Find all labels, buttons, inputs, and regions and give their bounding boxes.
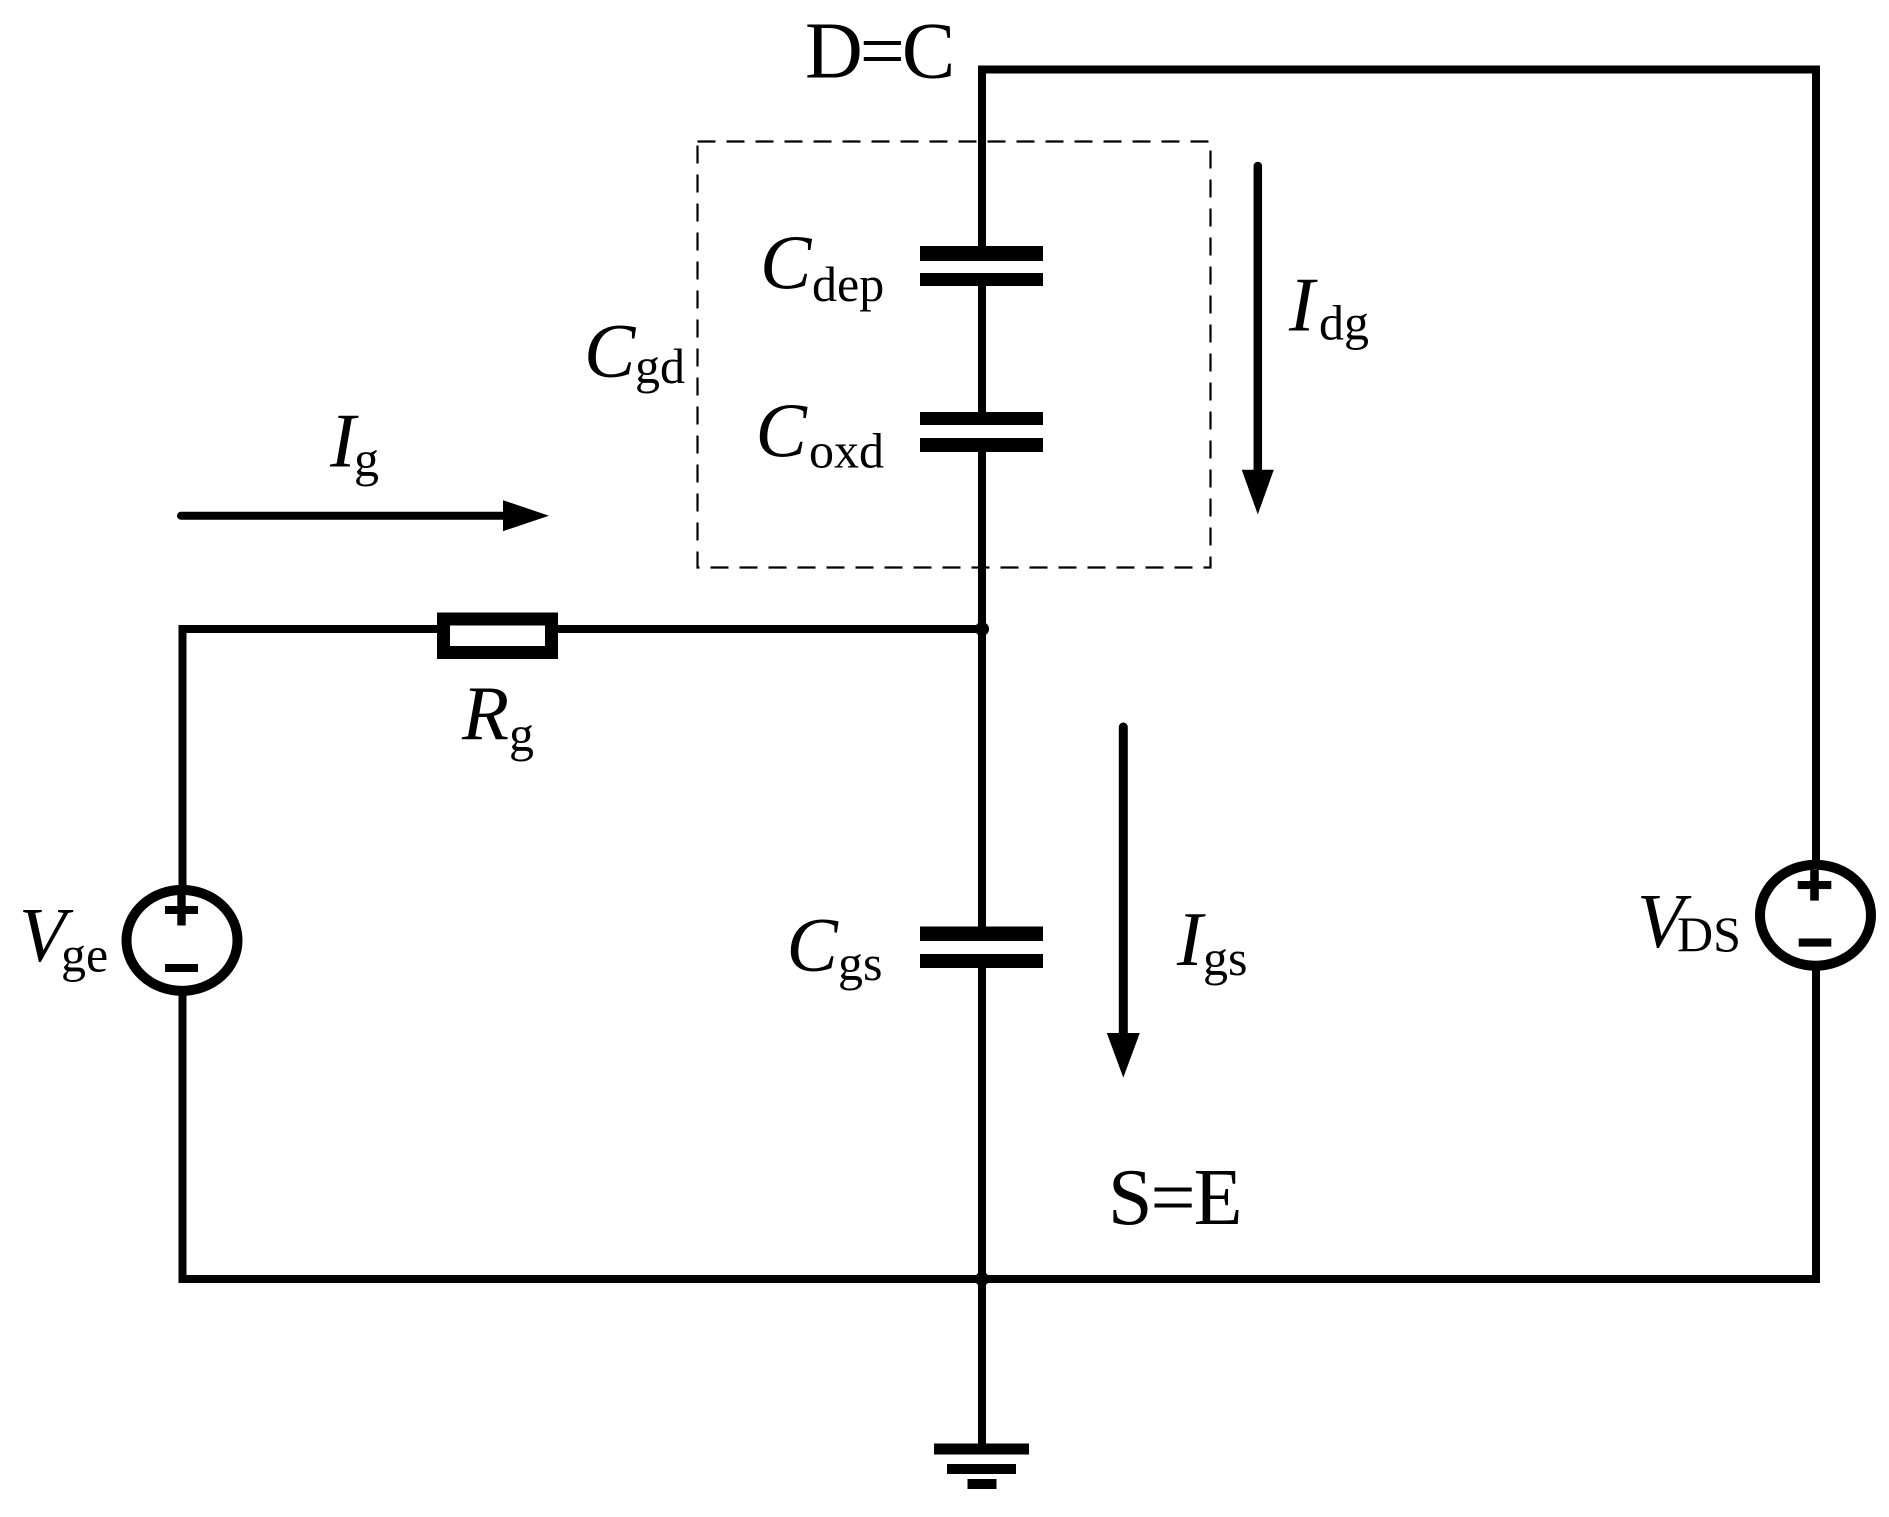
svg-text:C: C — [756, 388, 809, 474]
capacitor Cdep — [920, 246, 1043, 286]
svg-text:gs: gs — [838, 935, 882, 991]
junction node source — [975, 1272, 989, 1286]
svg-text:gs: gs — [1203, 930, 1247, 986]
arrow Idg — [1242, 166, 1274, 514]
dashed box Cgd group — [698, 142, 1211, 568]
wire main vertical segment 4 — [978, 966, 986, 1449]
wire main vertical segment 1 — [978, 66, 986, 249]
wire top horizontal D rail — [978, 66, 1820, 74]
resistor Rg — [444, 619, 552, 653]
wire left vertical upper — [179, 625, 187, 890]
wire gate horizontal — [179, 625, 983, 633]
label Cdep — [760, 220, 884, 313]
label Rg — [461, 670, 534, 762]
svg-text:C: C — [584, 308, 637, 394]
junction node gate — [975, 622, 989, 636]
label Igs — [1176, 896, 1247, 986]
svg-text:g: g — [509, 706, 534, 762]
wire right vertical lower — [1812, 966, 1820, 1283]
label Cgd — [584, 308, 685, 394]
svg-text:C: C — [760, 220, 813, 306]
label Cgs — [787, 902, 883, 991]
wire left vertical lower — [179, 991, 187, 1283]
svg-text:g: g — [354, 431, 379, 487]
svg-text:R: R — [461, 670, 509, 756]
label Vge — [19, 892, 108, 983]
wire right vertical upper — [1812, 66, 1820, 866]
svg-text:DS: DS — [1677, 906, 1741, 962]
voltage source Vge — [127, 890, 238, 991]
ground — [934, 1444, 1029, 1490]
wire main vertical segment 3 — [978, 450, 986, 929]
capacitor Cgs — [920, 927, 1043, 969]
wire main vertical segment 2 — [978, 284, 986, 414]
svg-text:dg: dg — [1319, 295, 1369, 351]
svg-text:I: I — [1288, 262, 1318, 348]
svg-text:I: I — [1176, 896, 1206, 982]
capacitor Coxd — [920, 412, 1043, 452]
label Ig — [329, 398, 379, 488]
label VDS — [1637, 878, 1741, 964]
wire bottom horizontal S rail — [179, 1275, 1821, 1283]
svg-text:D=C: D=C — [805, 8, 952, 96]
svg-text:ge: ge — [61, 927, 108, 983]
svg-text:gd: gd — [635, 338, 685, 394]
label Coxd — [756, 388, 885, 479]
svg-text:C: C — [787, 902, 840, 988]
voltage source VDS — [1760, 865, 1871, 966]
arrow Igs — [1107, 727, 1140, 1078]
arrow Ig — [181, 500, 549, 531]
svg-text:S=E: S=E — [1108, 1154, 1240, 1242]
svg-text:oxd: oxd — [809, 423, 884, 479]
svg-text:dep: dep — [812, 256, 884, 312]
label Idg — [1288, 262, 1369, 351]
